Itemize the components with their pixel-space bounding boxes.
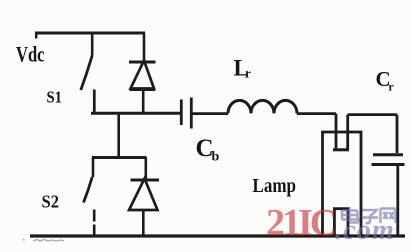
svg-text:S2: S2 xyxy=(42,192,60,212)
wire start nub xyxy=(35,33,37,39)
wire Cb to Lr xyxy=(191,112,228,115)
wire bottom rail xyxy=(30,234,405,237)
lamp bottom electrode xyxy=(334,209,348,236)
diode D2 xyxy=(129,158,159,237)
wire top rail xyxy=(35,32,145,35)
svg-text:Lamp: Lamp xyxy=(253,175,297,197)
svg-text:S1: S1 xyxy=(47,88,63,107)
svg-text:.com: .com xyxy=(335,215,395,246)
svg-text:r: r xyxy=(389,82,394,94)
diode D1 xyxy=(129,33,156,114)
svg-text:Vdc: Vdc xyxy=(16,42,45,67)
wire lamp pin2 to Cr xyxy=(348,115,397,153)
wire mid rail xyxy=(91,112,182,115)
wire S2 top rail xyxy=(92,156,147,159)
switch S2 xyxy=(84,158,95,238)
capacitor Cr xyxy=(372,155,405,236)
svg-text:21IC: 21IC xyxy=(266,202,335,244)
watermark chinese dianzi wang xyxy=(342,207,396,223)
capacitor Cb xyxy=(181,98,191,129)
lamp tube xyxy=(323,132,362,236)
switch S1 xyxy=(81,33,95,114)
wire Lr to lamp pin1 xyxy=(297,114,336,149)
svg-text:b: b xyxy=(212,150,220,165)
svg-text:r: r xyxy=(245,66,251,81)
wire junction to S2 xyxy=(117,113,120,158)
scan smudge bottom left xyxy=(23,240,64,242)
lamp top filament xyxy=(333,148,349,151)
inductor Lr xyxy=(228,100,297,113)
